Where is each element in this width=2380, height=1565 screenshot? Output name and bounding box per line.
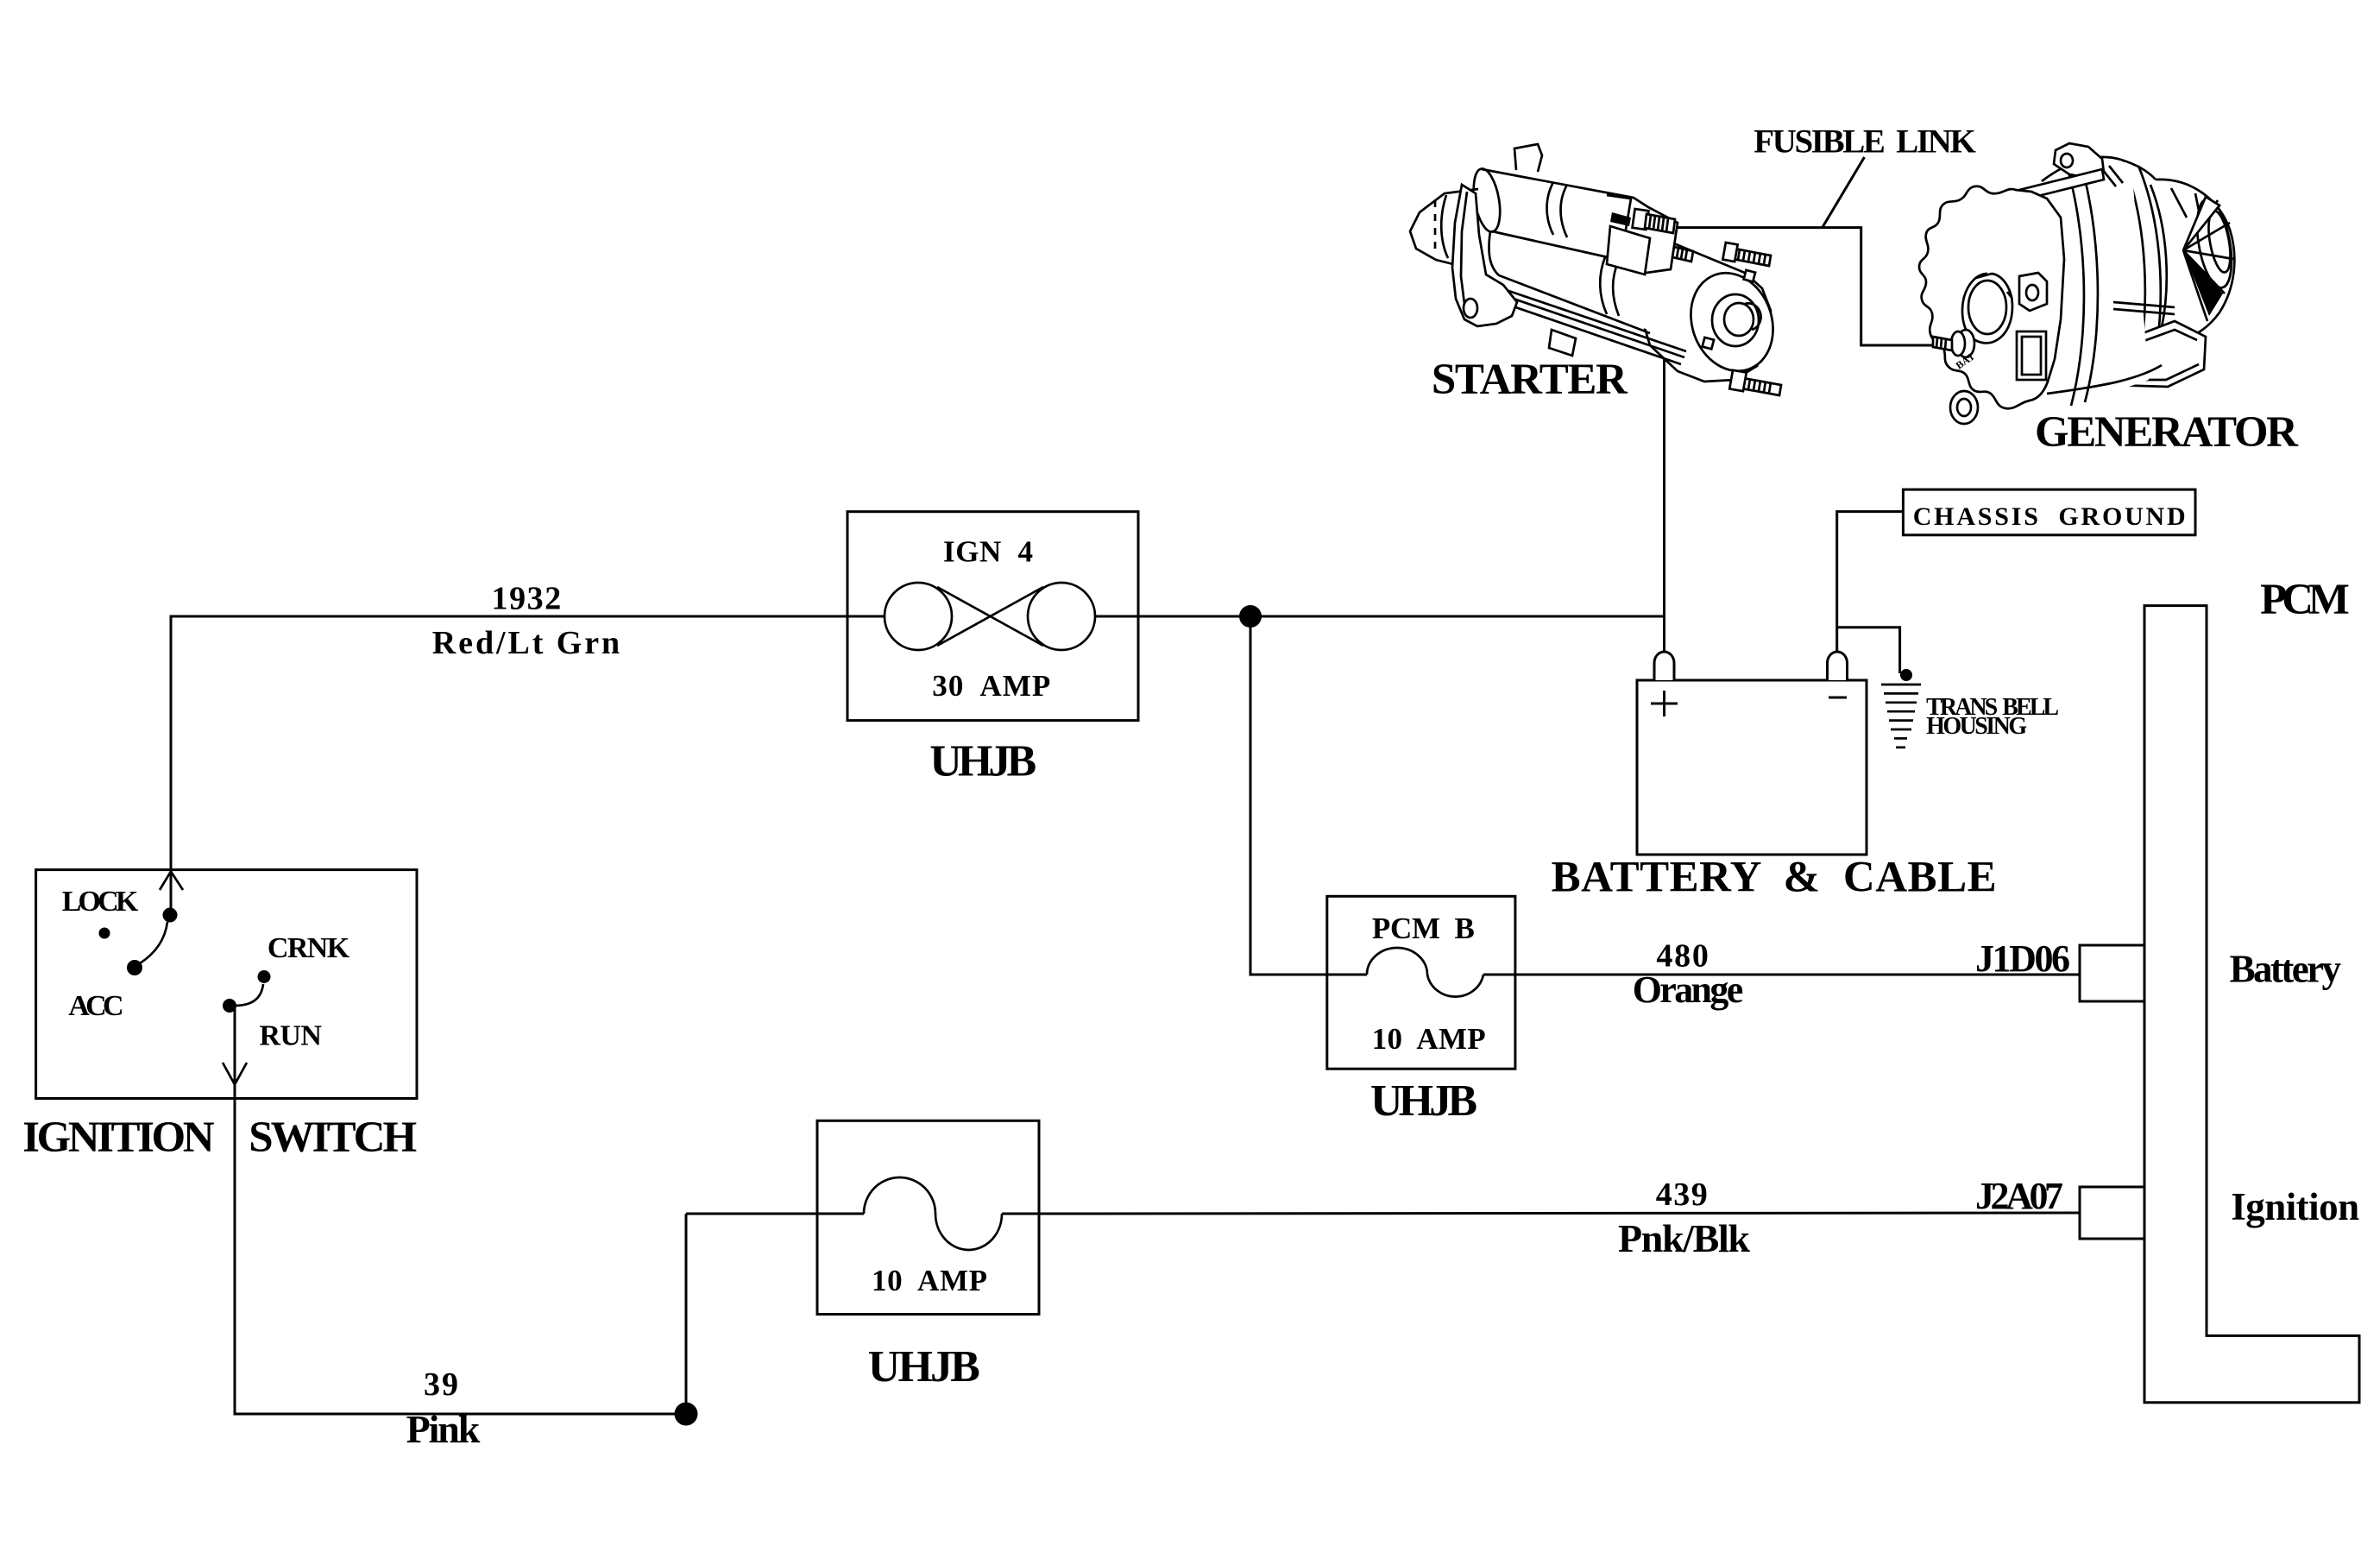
svg-text:10 AMP: 10 AMP [1372, 1022, 1486, 1056]
svg-text:ACC: ACC [68, 990, 123, 1022]
svg-text:LOCK: LOCK [62, 886, 139, 918]
svg-text:Ignition: Ignition [2231, 1185, 2359, 1228]
svg-text:GENERATOR: GENERATOR [2035, 408, 2299, 457]
svg-text:J2A07: J2A07 [1975, 1175, 2063, 1217]
svg-text:SWITCH: SWITCH [249, 1114, 417, 1162]
svg-text:HOUSING: HOUSING [1926, 713, 2027, 740]
svg-text:STARTER: STARTER [1432, 356, 1628, 404]
svg-text:Pnk/Blk: Pnk/Blk [1618, 1216, 1750, 1260]
svg-text:Orange: Orange [1633, 969, 1744, 1011]
svg-text:UHJB: UHJB [868, 1342, 980, 1391]
svg-text:FUSIBLE LINK: FUSIBLE LINK [1754, 123, 1976, 161]
svg-text:Red/Lt Grn: Red/Lt Grn [432, 625, 620, 661]
svg-text:Pink: Pink [406, 1407, 481, 1451]
svg-text:30 AMP: 30 AMP [932, 669, 1050, 703]
svg-text:IGNITION: IGNITION [22, 1114, 215, 1162]
svg-text:PCM B: PCM B [1372, 912, 1475, 945]
svg-text:UHJB: UHJB [1370, 1076, 1477, 1126]
svg-text:IGN 4: IGN 4 [943, 535, 1033, 569]
svg-text:RUN: RUN [260, 1020, 323, 1052]
svg-text:10 AMP: 10 AMP [872, 1264, 987, 1297]
svg-text:BATTERY & CABLE: BATTERY & CABLE [1552, 854, 1997, 902]
svg-text:439: 439 [1656, 1177, 1708, 1213]
svg-text:J1D06: J1D06 [1975, 937, 2070, 980]
svg-text:PCM: PCM [2260, 576, 2350, 624]
svg-text:CRNK: CRNK [268, 932, 350, 964]
svg-text:Battery: Battery [2230, 947, 2342, 990]
svg-text:1932: 1932 [492, 581, 562, 617]
svg-text:UHJB: UHJB [929, 737, 1036, 786]
